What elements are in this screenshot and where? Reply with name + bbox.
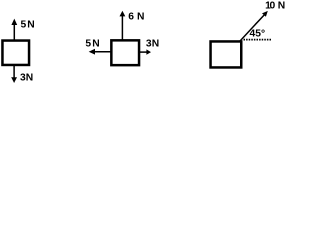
svg-text:N: N xyxy=(27,20,34,31)
svg-text:N: N xyxy=(26,73,33,83)
svg-text:45°: 45° xyxy=(250,28,266,39)
svg-text:5: 5 xyxy=(85,39,91,50)
svg-text:N: N xyxy=(137,12,144,23)
svg-text:5: 5 xyxy=(20,20,26,31)
svg-text:N: N xyxy=(92,39,99,50)
svg-text:N: N xyxy=(278,1,285,12)
svg-text:0: 0 xyxy=(269,1,275,12)
svg-text:6: 6 xyxy=(128,12,134,23)
svg-text:N: N xyxy=(152,39,159,50)
